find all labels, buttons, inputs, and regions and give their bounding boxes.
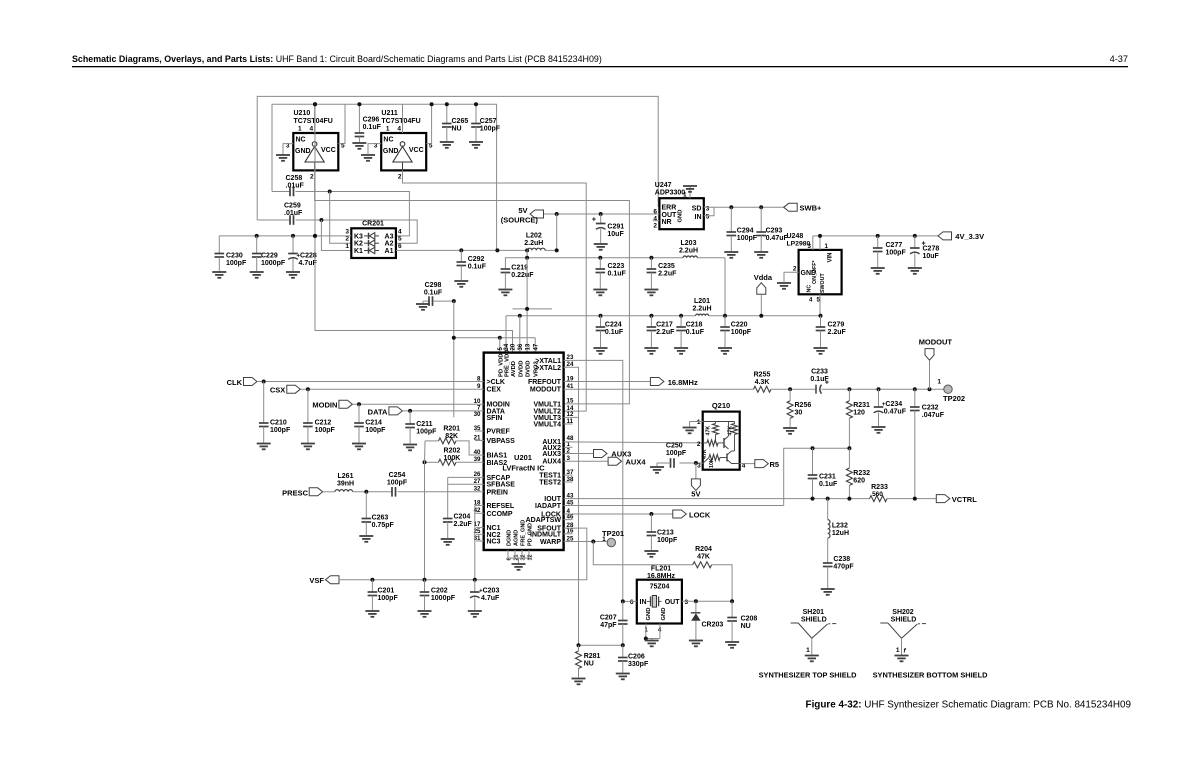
svg-text:CR201: CR201 xyxy=(362,221,384,228)
ground below C208 xyxy=(725,641,739,643)
ground below C230 xyxy=(212,271,226,273)
svg-text:DATA: DATA xyxy=(368,407,388,416)
svg-text:2.2uF: 2.2uF xyxy=(656,329,675,336)
svg-text:+: + xyxy=(592,217,596,224)
svg-text:30: 30 xyxy=(474,411,481,418)
svg-text:AVDD: AVDD xyxy=(511,361,517,377)
wire Q210 pin1 to ground xyxy=(690,422,703,427)
svg-text:15: 15 xyxy=(567,398,574,405)
LOCK line and flag xyxy=(564,513,673,515)
wire Q210 pin3 node with C250 xyxy=(680,462,703,464)
diode array CR201 xyxy=(351,228,396,258)
svg-text:13: 13 xyxy=(525,343,531,350)
svg-text:SYNTHESIZER BOTTOM SHIELD: SYNTHESIZER BOTTOM SHIELD xyxy=(873,670,988,679)
svg-text:Schematic Diagrams, Overlays,: Schematic Diagrams, Overlays, and Parts … xyxy=(72,54,602,64)
signal flag R5 xyxy=(740,463,755,465)
ground below R281 xyxy=(572,678,586,680)
svg-text:U211: U211 xyxy=(381,110,397,117)
capacitor C259 in series on A2 feed line xyxy=(257,219,289,221)
3V analog rail with L201 xyxy=(506,315,696,317)
svg-text:0.47uF: 0.47uF xyxy=(884,409,907,416)
wire U210 pin4 to rail xyxy=(314,104,316,133)
capacitor C207 in series on XTAL1 column xyxy=(622,601,624,620)
ground below C234 xyxy=(872,426,886,428)
pin13 DVDD column xyxy=(526,258,528,353)
svg-text:C291: C291 xyxy=(607,223,624,230)
IADAPT pin wire xyxy=(564,505,784,507)
wire U248 pin2 GND to ground xyxy=(784,272,799,282)
resistor R231 xyxy=(848,389,850,401)
svg-text:NU: NU xyxy=(452,126,462,133)
svg-text:R256: R256 xyxy=(795,402,812,409)
svg-text:CEX: CEX xyxy=(487,387,502,394)
svg-text:39nH: 39nH xyxy=(337,481,354,488)
capacitor C211 xyxy=(409,411,411,424)
svg-text:R5: R5 xyxy=(770,460,780,469)
svg-text:C258: C258 xyxy=(286,175,303,182)
ground below C296 xyxy=(352,142,366,144)
svg-text:+C228: +C228 xyxy=(297,252,317,259)
capacitor C279 xyxy=(820,316,822,327)
svg-text:1: 1 xyxy=(896,647,900,654)
svg-text:C238: C238 xyxy=(833,556,850,563)
svg-text:VIN: VIN xyxy=(828,252,834,262)
svg-text:INDMULT: INDMULT xyxy=(530,531,562,538)
svg-text:2: 2 xyxy=(310,174,314,181)
svg-text:AGND: AGND xyxy=(514,530,520,546)
capacitor C219 xyxy=(501,268,511,270)
4V output rail xyxy=(813,235,938,237)
resistor R256 to ground xyxy=(789,389,791,401)
svg-text:A1: A1 xyxy=(385,248,394,255)
svg-text:K1: K1 xyxy=(354,248,363,255)
ground above U247 xyxy=(683,185,697,187)
svg-text:DVDD: DVDD xyxy=(518,361,524,377)
svg-text:16.8MHz: 16.8MHz xyxy=(668,378,698,387)
svg-text:1: 1 xyxy=(602,536,606,543)
svg-text:100pF: 100pF xyxy=(365,427,386,434)
ground below U201 xyxy=(512,563,526,565)
svg-text:10K: 10K xyxy=(709,458,715,468)
svg-text:C208: C208 xyxy=(741,615,758,622)
wire REFSEL/CCOMP down to VSF line xyxy=(475,505,484,507)
svg-text:SFBASE: SFBASE xyxy=(487,482,516,489)
signal flag AUX4 xyxy=(564,460,609,462)
svg-text:A2: A2 xyxy=(385,241,394,248)
polarized capacitor C233 in series xyxy=(815,385,817,394)
ground below C263 xyxy=(359,535,373,537)
svg-text:1000pF: 1000pF xyxy=(431,595,456,602)
svg-text:OUT: OUT xyxy=(665,599,681,606)
svg-text:CLK: CLK xyxy=(227,378,243,387)
svg-text:A3: A3 xyxy=(385,233,394,240)
svg-text:1: 1 xyxy=(386,126,390,133)
capacitor C230 xyxy=(218,236,220,254)
svg-text:NC3: NC3 xyxy=(487,539,501,546)
capacitor C213 xyxy=(650,514,652,532)
svg-text:3: 3 xyxy=(345,228,349,235)
svg-text:620: 620 xyxy=(853,478,865,485)
svg-text:C296: C296 xyxy=(363,117,380,124)
pin47 column xyxy=(534,338,536,353)
svg-text:4: 4 xyxy=(310,126,314,133)
svg-text:CSX: CSX xyxy=(270,386,285,395)
svg-text:K2: K2 xyxy=(354,241,363,248)
wire from C259 line down to CR201 K1 xyxy=(321,220,351,251)
svg-text:4.7uF: 4.7uF xyxy=(481,595,500,602)
svg-text:>CLK: >CLK xyxy=(487,379,505,386)
svg-text:C219: C219 xyxy=(511,265,528,272)
wire U248 pin3 to 4V rail xyxy=(812,236,814,250)
ground below C211 xyxy=(403,444,417,446)
capacitor C294 xyxy=(730,207,732,232)
svg-text:SWB+: SWB+ xyxy=(800,203,822,212)
svg-text:L232: L232 xyxy=(832,523,848,530)
inductor L203 xyxy=(683,256,697,258)
svg-text:4: 4 xyxy=(398,228,402,235)
svg-text:VBPASS: VBPASS xyxy=(487,438,516,445)
capacitor C293 xyxy=(760,207,762,232)
svg-text:5: 5 xyxy=(398,236,402,243)
svg-text:34: 34 xyxy=(504,343,510,350)
svg-text:10uF: 10uF xyxy=(923,253,940,260)
svg-text:C217: C217 xyxy=(656,322,673,329)
ground below C293 xyxy=(754,251,768,253)
inverter U211 xyxy=(381,133,426,170)
pin36 AVDD column xyxy=(519,316,521,353)
svg-text:BIAS2: BIAS2 xyxy=(487,460,508,467)
capacitor C223 xyxy=(599,258,601,269)
wire L202 line (5V source to diode switch A1) xyxy=(396,249,528,251)
svg-text:100pF: 100pF xyxy=(387,480,408,487)
wire U210 pin2 output to VMULT1 column xyxy=(315,170,630,404)
svg-text:PVREF: PVREF xyxy=(487,429,511,436)
ground below C277 xyxy=(871,267,885,269)
svg-text:C210: C210 xyxy=(270,420,287,427)
svg-text:R231: R231 xyxy=(853,402,870,409)
svg-text:2: 2 xyxy=(653,223,657,230)
wire C298 node down to SFIN and across to pin 5/47 columns xyxy=(453,301,455,417)
ground at Q210 pin1 xyxy=(683,427,697,429)
svg-text:100pF: 100pF xyxy=(731,329,752,336)
svg-text:C257: C257 xyxy=(480,118,497,125)
ground below C213 xyxy=(644,550,658,552)
ground below C202 xyxy=(418,610,432,612)
svg-text:PD_VDD: PD_VDD xyxy=(498,353,504,377)
svg-text:100pF: 100pF xyxy=(315,427,336,434)
svg-text:TEST2: TEST2 xyxy=(539,480,561,487)
capacitor C263 xyxy=(365,492,367,519)
inductor L202 xyxy=(528,248,546,250)
wire inner 5V rail over U210/U211 xyxy=(272,104,497,250)
svg-text:FL201: FL201 xyxy=(651,566,671,573)
svg-text:4V_3.3V: 4V_3.3V xyxy=(955,232,984,241)
svg-text:Vdda: Vdda xyxy=(754,273,773,282)
svg-text:1: 1 xyxy=(345,243,349,250)
svg-text:100pF: 100pF xyxy=(886,249,907,256)
capacitor C238 xyxy=(823,562,833,564)
svg-text:SYNTHESIZER TOP SHIELD: SYNTHESIZER TOP SHIELD xyxy=(759,670,858,679)
svg-text:C224: C224 xyxy=(605,322,622,329)
ground below C212 xyxy=(301,443,315,445)
svg-text:R281: R281 xyxy=(584,653,601,660)
svg-text:47K: 47K xyxy=(706,426,712,436)
resistor R232 xyxy=(848,448,850,468)
svg-text:30: 30 xyxy=(795,410,803,417)
svg-text:C206: C206 xyxy=(628,654,645,661)
svg-text:75Z04: 75Z04 xyxy=(650,584,670,591)
svg-text:C254: C254 xyxy=(389,472,406,479)
test point TP202 xyxy=(944,385,952,393)
svg-text:C232: C232 xyxy=(922,405,939,412)
svg-text:VCC: VCC xyxy=(321,147,336,154)
VDD distribution line with C219 C223 C235 and L203 xyxy=(505,258,683,269)
svg-text:L202: L202 xyxy=(526,233,542,240)
svg-text:U247: U247 xyxy=(655,182,672,189)
inductor L201 xyxy=(696,314,709,316)
ground below C229 xyxy=(250,271,264,273)
svg-text:C212: C212 xyxy=(315,420,332,427)
svg-text:REFSEL: REFSEL xyxy=(487,503,515,510)
svg-text:5V: 5V xyxy=(691,490,700,499)
capacitor C212 xyxy=(307,389,309,423)
svg-text:C202: C202 xyxy=(431,588,448,595)
svg-text:DVDD: DVDD xyxy=(526,361,532,377)
svg-text:+C203: +C203 xyxy=(479,588,499,595)
svg-text:>XTAL2: >XTAL2 xyxy=(535,365,561,372)
power flag 4V_3.3V xyxy=(938,232,952,240)
ground below C210 xyxy=(257,443,271,445)
svg-text:100pF: 100pF xyxy=(416,429,437,436)
svg-text:TC7ST04FU: TC7ST04FU xyxy=(294,118,333,125)
power flag 5V (SOURCE) xyxy=(530,210,544,218)
svg-text:PREIN: PREIN xyxy=(487,489,508,496)
svg-text:U210: U210 xyxy=(294,110,311,117)
svg-text:MODIN: MODIN xyxy=(312,401,337,410)
svg-text:C231: C231 xyxy=(819,474,836,481)
capacitor C250 xyxy=(670,458,672,468)
ground left of C298 xyxy=(422,301,424,303)
svg-text:R255: R255 xyxy=(754,372,771,379)
svg-text:FREFOUT: FREFOUT xyxy=(528,379,562,386)
svg-text:C298: C298 xyxy=(425,282,442,289)
capacitor C224 xyxy=(600,316,602,327)
ground at U248 pin2 xyxy=(777,282,791,284)
pin34 PRE_VDD column xyxy=(505,352,507,354)
svg-text:4.3K: 4.3K xyxy=(755,379,770,386)
polarized capacitor C203 xyxy=(474,580,476,592)
ground below C201 xyxy=(365,610,379,612)
ground below C292 xyxy=(454,280,468,282)
svg-text:(SOURCE): (SOURCE) xyxy=(501,216,539,225)
svg-text:VMULT1: VMULT1 xyxy=(534,401,562,408)
svg-text:C278: C278 xyxy=(923,246,940,253)
svg-text:20: 20 xyxy=(511,343,517,350)
svg-text:C294: C294 xyxy=(737,228,754,235)
wire outer rectangle from C259 line to ERR pin of U247 xyxy=(257,96,659,220)
svg-text:GND: GND xyxy=(661,608,667,621)
svg-text:VCC: VCC xyxy=(409,147,424,154)
svg-text:.01uF: .01uF xyxy=(286,183,305,190)
svg-text:PRESC: PRESC xyxy=(282,488,308,497)
svg-text:4: 4 xyxy=(397,126,401,133)
crystal filter FL201 xyxy=(637,580,682,624)
svg-text:SD: SD xyxy=(692,206,702,213)
svg-text:100pF: 100pF xyxy=(226,260,247,267)
ground below C238 xyxy=(821,588,835,590)
capacitor C298 on PD_VDD line xyxy=(423,300,429,302)
capacitor C202 xyxy=(424,580,426,592)
svg-text:C218: C218 xyxy=(686,322,703,329)
capacitor C201 xyxy=(371,580,373,592)
capacitor C206 in series to ground xyxy=(622,645,624,657)
svg-text:1: 1 xyxy=(683,192,687,199)
svg-text:SH201: SH201 xyxy=(803,609,825,616)
ground below C203 xyxy=(468,610,482,612)
svg-text:C292: C292 xyxy=(468,256,485,263)
VSF line to SFOUT xyxy=(339,528,587,580)
flag 16.8MHz on FREFOUT xyxy=(564,381,651,383)
svg-text:IN: IN xyxy=(695,214,702,221)
zener diode CR203 xyxy=(695,601,697,612)
svg-text:3: 3 xyxy=(808,243,812,250)
svg-text:AUX4: AUX4 xyxy=(626,458,647,467)
VMULT3 stub xyxy=(564,416,579,418)
svg-text:6: 6 xyxy=(630,599,634,606)
capacitor C231 xyxy=(812,448,814,475)
wire U211 pin3 GND to ground xyxy=(368,144,381,154)
capacitor C218 xyxy=(680,316,682,327)
svg-text:C293: C293 xyxy=(766,228,783,235)
svg-text:0.75pF: 0.75pF xyxy=(372,522,395,529)
capacitor C204 xyxy=(443,518,453,520)
svg-text:R202: R202 xyxy=(444,447,461,454)
svg-text:OUT: OUT xyxy=(662,212,678,219)
svg-text:1: 1 xyxy=(806,647,810,654)
svg-text:GND: GND xyxy=(678,210,684,223)
svg-text:2.2uF: 2.2uF xyxy=(658,271,677,278)
svg-text:GND: GND xyxy=(383,148,399,155)
svg-text:ADP3300: ADP3300 xyxy=(655,190,685,197)
polarized capacitor C278 xyxy=(914,236,916,248)
wire U248 pin1 to 4V rail xyxy=(819,236,821,250)
svg-text:CR203: CR203 xyxy=(702,622,724,629)
svg-text:0.1uF: 0.1uF xyxy=(819,481,838,488)
IOUT line to VCTRL xyxy=(564,498,870,500)
svg-text:NU: NU xyxy=(584,661,594,668)
XTAL2 wire down to R281 node xyxy=(564,367,579,645)
svg-text:0.47uF: 0.47uF xyxy=(766,235,789,242)
WARP wire to TP201 and R204 xyxy=(564,541,607,543)
capacitor C258 in series on A3 feed line xyxy=(272,191,290,193)
svg-text:L201: L201 xyxy=(694,298,710,305)
ground below C204 xyxy=(441,538,455,540)
svg-text:5V: 5V xyxy=(518,206,527,215)
svg-text:SHIELD: SHIELD xyxy=(801,617,827,624)
ground below C223 xyxy=(593,289,607,291)
AUX1 wire to Q210 pin2 xyxy=(564,442,703,443)
svg-text:NU: NU xyxy=(741,623,751,630)
wire U247 GND1 to ground above xyxy=(689,186,691,198)
svg-text:2.2uH: 2.2uH xyxy=(679,248,698,255)
svg-text:C279: C279 xyxy=(828,322,845,329)
resistor R202 xyxy=(425,461,439,463)
svg-text:12uH: 12uH xyxy=(832,530,849,537)
svg-text:82K: 82K xyxy=(445,433,458,440)
svg-text:2.2uF: 2.2uF xyxy=(454,521,473,528)
svg-text:330pF: 330pF xyxy=(628,661,649,668)
svg-text:C233: C233 xyxy=(811,368,828,375)
wire U248 OUT pin5 down to 3V rail xyxy=(819,294,821,316)
svg-text:MODOUT: MODOUT xyxy=(530,387,562,394)
XTAL1 wire down to FL201 IN xyxy=(564,360,623,601)
svg-text:3: 3 xyxy=(706,206,710,213)
polarized capacitor C228 xyxy=(292,236,294,254)
svg-text:TC7ST04FU: TC7ST04FU xyxy=(381,118,420,125)
svg-text:R201: R201 xyxy=(443,426,460,433)
svg-text:100pF: 100pF xyxy=(378,595,399,602)
capacitor C235 xyxy=(650,258,652,269)
svg-text:0.22uF: 0.22uF xyxy=(511,272,534,279)
resistor R204 xyxy=(693,562,712,568)
IADAPT upper line with C231 and R232 xyxy=(784,448,850,505)
svg-text:C263: C263 xyxy=(372,515,389,522)
signal flag VCTRL xyxy=(936,495,950,503)
ground below C224 xyxy=(594,347,608,349)
svg-text:C230: C230 xyxy=(226,252,243,259)
svg-text:LVFractN IC: LVFractN IC xyxy=(502,464,545,473)
svg-text:NC: NC xyxy=(296,137,306,144)
svg-text:SWOUT: SWOUT xyxy=(820,273,826,293)
svg-text:12: 12 xyxy=(527,554,533,560)
svg-text:0.1uF: 0.1uF xyxy=(605,329,624,336)
U201 right short stubs xyxy=(564,423,573,425)
power flag 5V below C250 node xyxy=(695,463,697,479)
wire 5V source line to U247 OUT xyxy=(544,213,660,215)
ground below C294 xyxy=(724,251,738,253)
svg-text:+: + xyxy=(825,380,829,387)
svg-text:6: 6 xyxy=(398,243,402,250)
capacitor C214 xyxy=(358,404,360,423)
crystal symbol inside FL201 xyxy=(647,600,650,602)
svg-text:R204: R204 xyxy=(695,546,712,553)
svg-text:VSF: VSF xyxy=(309,576,324,585)
svg-text:MODOUT: MODOUT xyxy=(919,338,953,347)
svg-text:47pF: 47pF xyxy=(600,622,617,629)
svg-text:ON_OFF*: ON_OFF* xyxy=(812,260,818,284)
ground below shield SH201 xyxy=(805,655,819,657)
svg-text:VMULT4: VMULT4 xyxy=(534,422,562,429)
wire SFCAP/SFBASE to C204 xyxy=(448,476,484,478)
svg-text:TP202: TP202 xyxy=(943,394,965,403)
svg-text:C211: C211 xyxy=(416,421,432,428)
svg-text:.01uF: .01uF xyxy=(284,210,303,217)
svg-text:BIAS1: BIAS1 xyxy=(487,453,508,460)
resistor R255 in series xyxy=(754,386,772,392)
inductor L232 to C238 xyxy=(827,499,829,520)
wire U247 NR stub xyxy=(653,220,660,222)
svg-text:560: 560 xyxy=(872,491,883,498)
resistor R201 xyxy=(425,440,439,442)
svg-text:0.1uF: 0.1uF xyxy=(608,271,627,278)
signal flag AUX3 xyxy=(564,453,594,455)
ground at U211 pin3 xyxy=(361,154,375,156)
pin5 PD_VDD column xyxy=(499,338,501,353)
capacitor C208 (NU) xyxy=(731,601,733,617)
svg-text:4: 4 xyxy=(653,216,657,223)
svg-text:0.1uF: 0.1uF xyxy=(468,264,487,271)
ground below FL201 xyxy=(645,640,659,642)
